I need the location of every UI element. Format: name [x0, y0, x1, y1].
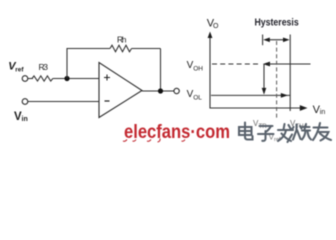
terminal Vout — [174, 88, 179, 93]
wire feedback top left — [67, 48, 111, 50]
measure tick left — [262, 35, 264, 46]
axis Vin horizontal — [210, 107, 303, 109]
wire Vref to R3 — [28, 78, 33, 80]
svg-text:ref: ref — [15, 67, 24, 74]
axis VO vertical — [209, 36, 211, 109]
svg-text:O: O — [213, 23, 219, 30]
watermark hanzi dian — [239, 123, 253, 140]
label VO — [207, 18, 219, 31]
wire output — [142, 90, 174, 92]
transition down vertical with arrow — [263, 64, 265, 94]
wire feedback right vertical — [160, 49, 162, 92]
wire feedback top right — [132, 48, 161, 50]
terminal Vin — [22, 99, 28, 105]
watermark hanzi zi — [258, 126, 274, 141]
wire Vin to op-amp — [28, 101, 99, 103]
label Vin — [14, 111, 28, 123]
op-amp U1 — [99, 63, 142, 118]
label Vref — [8, 61, 24, 74]
wire feedback left vertical — [66, 49, 68, 79]
threshold center dashed vertical — [276, 41, 278, 120]
line VOH dashed — [212, 63, 260, 65]
svg-text:Hysteresis: Hysteresis — [255, 17, 300, 28]
output junction dot — [158, 88, 163, 93]
label VOL — [187, 89, 203, 101]
node A junction dot — [64, 76, 69, 81]
label VOH — [187, 60, 204, 73]
line VOL solid — [211, 94, 290, 96]
line VOH solid — [268, 63, 311, 65]
svg-text:in: in — [320, 109, 326, 116]
watermark hanzi you — [313, 123, 331, 141]
svg-text:in: in — [22, 116, 28, 123]
watermark hanzi shao — [292, 124, 311, 140]
label VTR (below axis, gray) — [253, 119, 267, 130]
pin + (noninverting) — [104, 75, 110, 81]
resistor R3 — [32, 76, 53, 81]
svg-text:OL: OL — [193, 94, 202, 101]
measure arrow Hysteresis — [267, 39, 287, 41]
watermark hanzi fa — [278, 124, 293, 142]
pin - (inverting) — [105, 100, 110, 102]
terminal Vref — [22, 76, 28, 82]
label Vref (below axis, gray) — [269, 133, 281, 144]
wire R3 to op-amp — [53, 78, 99, 80]
svg-text:R3: R3 — [39, 62, 49, 72]
svg-text:OH: OH — [193, 66, 203, 73]
arrow right on VOL — [281, 93, 288, 98]
label VTH+ (below axis, gray) — [290, 119, 308, 130]
watermark logo curls — [123, 139, 185, 143]
svg-text:elecfans·com: elecfans·com — [124, 122, 230, 143]
label Vin graph — [313, 104, 326, 116]
svg-text:Rh: Rh — [117, 35, 127, 45]
transition up vertical right — [289, 35, 291, 112]
arrow left on VOH — [263, 62, 270, 67]
resistor Rh — [110, 45, 132, 52]
